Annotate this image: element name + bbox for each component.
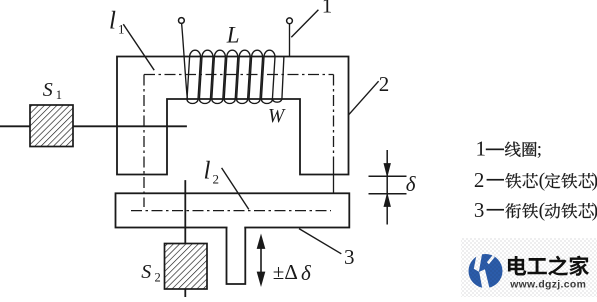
svg-text:1: 1	[476, 137, 487, 161]
wire: horizontal rod through S1	[0, 125, 186, 127]
svg-text:2: 2	[474, 168, 485, 192]
centreline right limb	[333, 75, 335, 166]
logo bolt white cuts	[474, 249, 483, 271]
svg-text:l: l	[109, 7, 116, 34]
centreline armature	[131, 210, 331, 212]
gap arrow up	[384, 194, 390, 207]
spring block S1	[30, 105, 73, 147]
centreline right limb solid part across gap	[333, 165, 335, 193]
svg-text:L: L	[226, 23, 240, 48]
svg-text:δ: δ	[406, 172, 417, 196]
svg-text:1: 1	[56, 88, 62, 102]
motion arrow head down	[257, 272, 265, 286]
logo text dianogongzhijia	[508, 256, 526, 276]
svg-text:δ: δ	[301, 261, 312, 285]
svg-text:;: ;	[537, 139, 542, 160]
gap dimension lines	[369, 150, 407, 225]
logo disc	[469, 254, 503, 288]
pointer l2	[222, 168, 249, 210]
centreline top limb	[144, 74, 334, 76]
svg-text:W: W	[268, 106, 286, 127]
svg-text:l: l	[204, 158, 211, 185]
centreline left limb	[143, 75, 145, 208]
stem below armature	[227, 226, 246, 284]
wire: vertical rod through S2	[184, 181, 186, 297]
svg-text:2: 2	[155, 270, 161, 284]
watermark texture	[461, 238, 597, 297]
svg-text:): )	[592, 171, 597, 192]
iron core U2 outline	[117, 57, 349, 175]
armature bar	[116, 193, 350, 227]
svg-text:1: 1	[118, 21, 125, 36]
svg-text:2: 2	[379, 72, 390, 96]
pointer 1	[291, 10, 318, 38]
svg-text:www.dgzj.com: www.dgzj.com	[509, 280, 586, 291]
svg-text:): )	[592, 201, 597, 222]
coil lead right	[289, 24, 291, 57]
terminal circle left	[179, 18, 185, 24]
motion arrow shaft	[260, 243, 262, 278]
terminal circle right	[287, 18, 293, 24]
svg-text:S: S	[43, 79, 53, 101]
motion arrow head up	[257, 235, 265, 249]
pointer 3	[299, 229, 341, 254]
svg-text:(: (	[539, 171, 546, 192]
svg-text:S: S	[141, 261, 151, 283]
svg-text:3: 3	[474, 198, 485, 222]
svg-text:2: 2	[213, 172, 220, 187]
svg-text:(: (	[539, 201, 546, 222]
svg-text:±Δ: ±Δ	[273, 260, 298, 284]
svg-text:1: 1	[322, 0, 333, 18]
pointer l1	[123, 24, 154, 70]
coil lead-in left	[182, 23, 188, 98]
gap arrow down	[384, 164, 390, 177]
coil L winding loops	[187, 50, 284, 103]
spring block S2	[165, 244, 208, 290]
pointer 2	[348, 81, 378, 115]
svg-text:3: 3	[344, 245, 355, 269]
